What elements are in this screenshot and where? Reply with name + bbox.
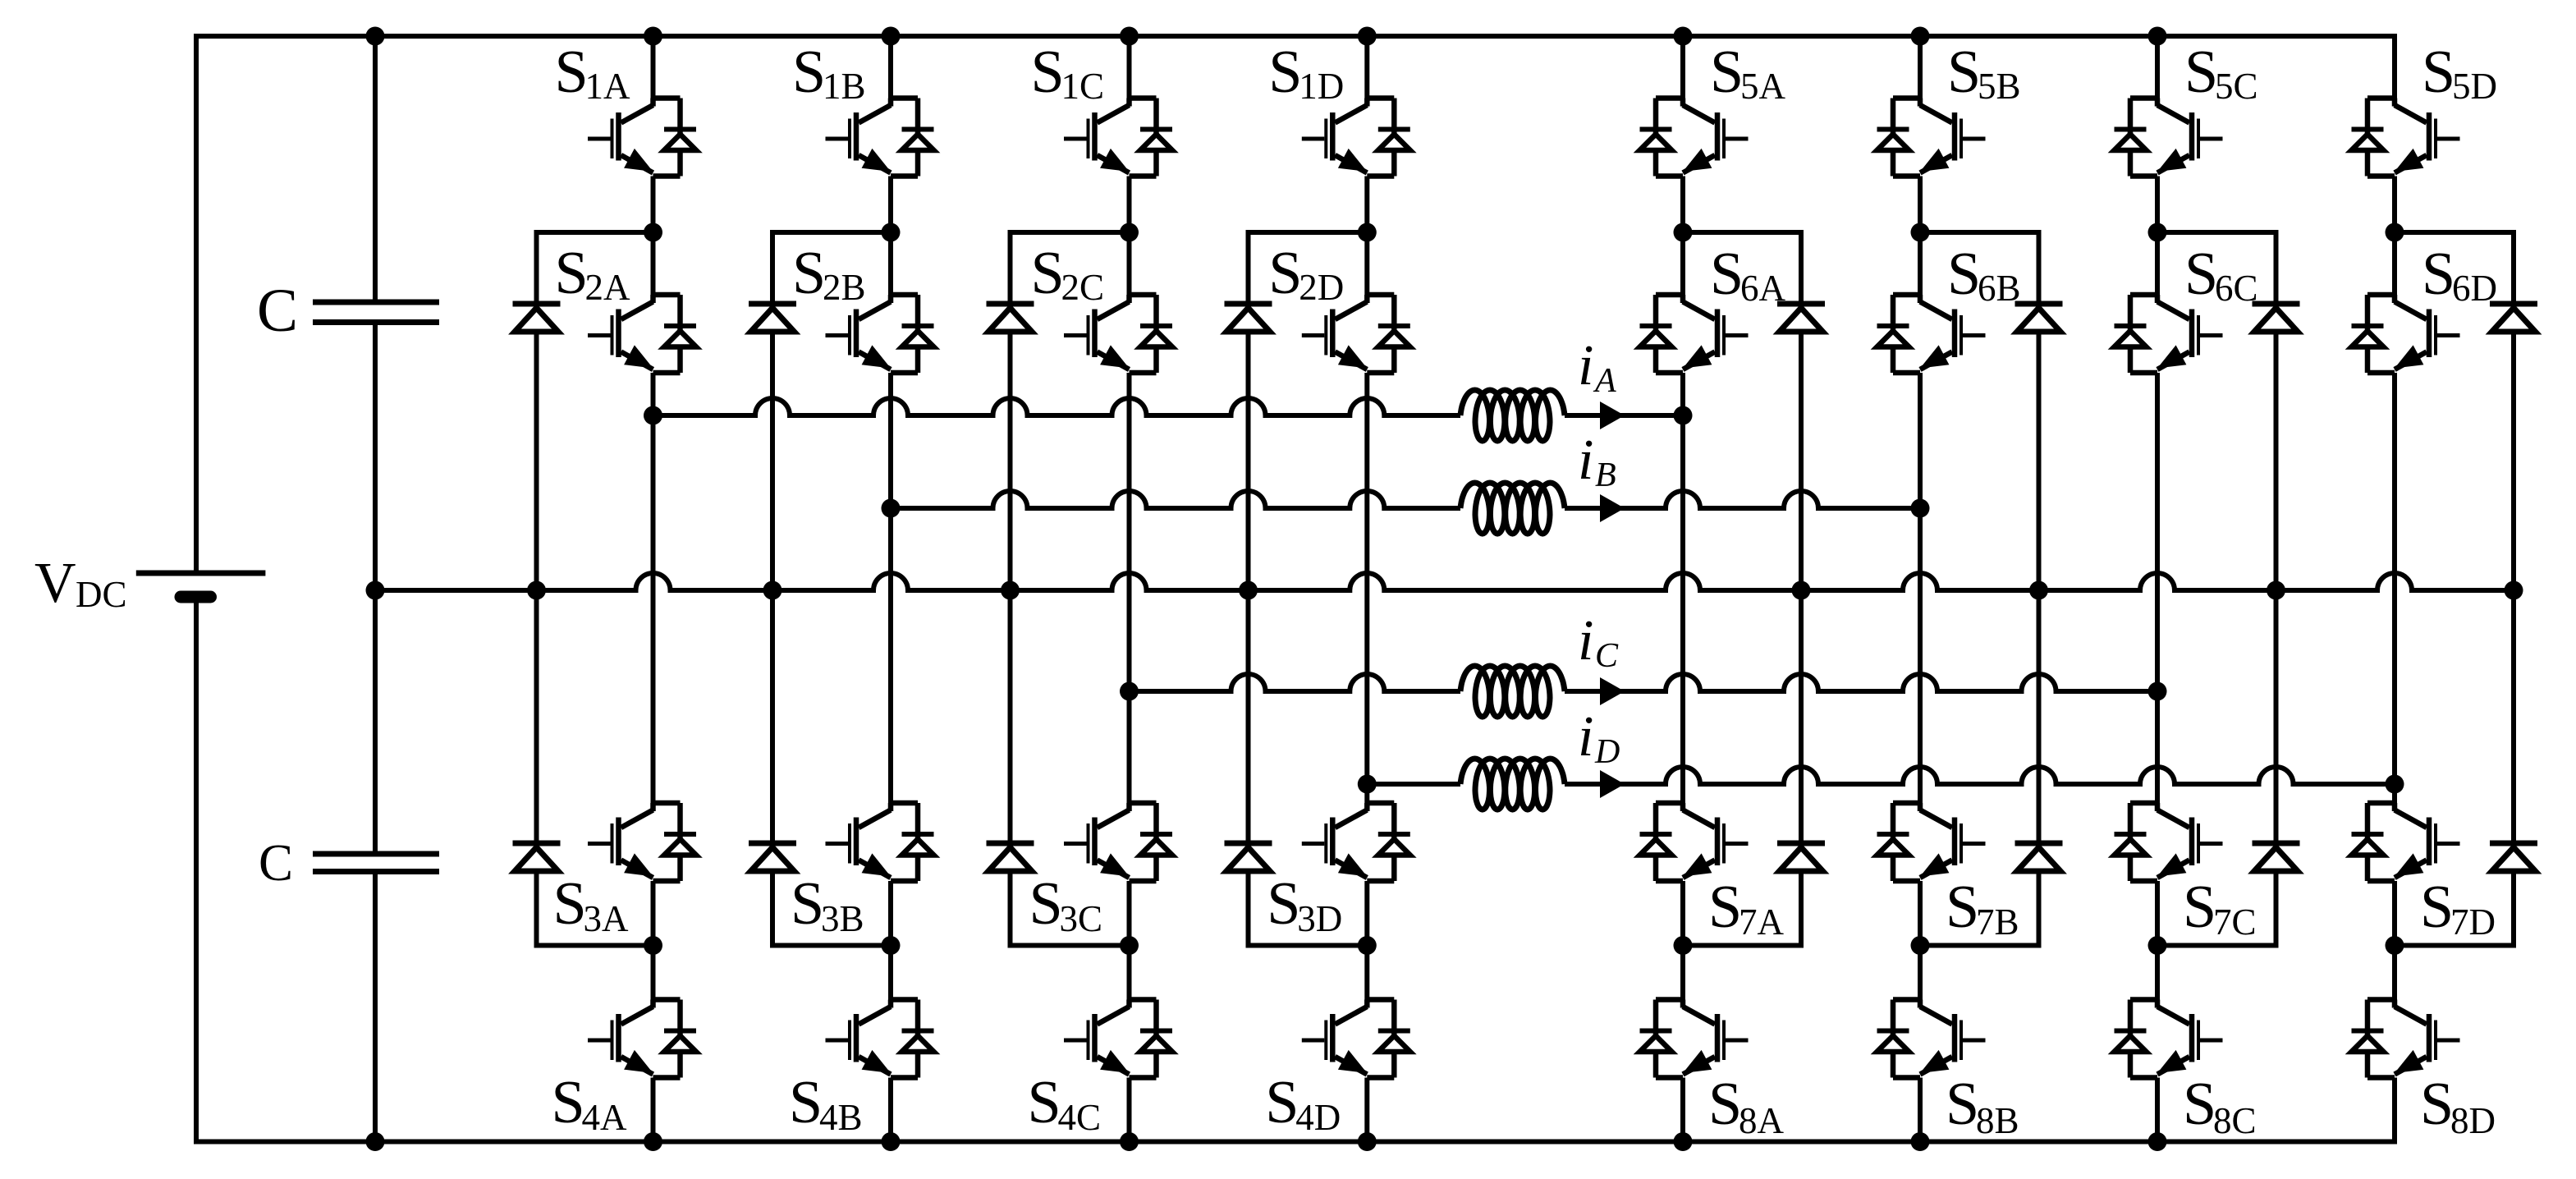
node midpoint rail / capacitor column bbox=[366, 581, 385, 600]
svg-text:B: B bbox=[1595, 456, 1616, 494]
transistor S4A (IGBT with antiparallel diode) bbox=[588, 1000, 696, 1078]
svg-text:S: S bbox=[552, 1069, 585, 1136]
transistor S8C (IGBT with antiparallel diode) bbox=[2115, 1000, 2223, 1078]
svg-text:6C: 6C bbox=[2215, 268, 2258, 309]
svg-text:i: i bbox=[1578, 334, 1593, 397]
transistor S6B (IGBT with antiparallel diode) bbox=[1877, 295, 1986, 373]
svg-text:S: S bbox=[2422, 241, 2455, 308]
transistor S3A (IGBT with antiparallel diode) bbox=[588, 803, 696, 881]
svg-text:S: S bbox=[1708, 874, 1742, 941]
wire leg AR output column bbox=[1680, 373, 1685, 803]
node bottom rail / leg A left bbox=[644, 1132, 662, 1151]
svg-text:8D: 8D bbox=[2450, 1100, 2496, 1141]
transistor S5A (IGBT with antiparallel diode) bbox=[1640, 99, 1749, 177]
wire leg BR output column bbox=[1918, 373, 1923, 803]
wire leg BR emitter stub to bottom rail bbox=[1918, 1078, 1923, 1142]
transistor S8A (IGBT with antiparallel diode) bbox=[1640, 1000, 1749, 1078]
svg-text:2C: 2C bbox=[1061, 267, 1105, 308]
diode clamp lower AL bbox=[513, 843, 561, 871]
diode clamp lower DR bbox=[2490, 843, 2537, 871]
wire leg CR between S7C and S8C bbox=[2155, 881, 2160, 1000]
transistor S2A (IGBT with antiparallel diode) bbox=[588, 295, 696, 373]
wire leg AR emitter stub to bottom rail bbox=[1680, 1078, 1685, 1142]
node phase A output / left leg bbox=[644, 406, 662, 425]
svg-text:A: A bbox=[1593, 362, 1616, 400]
wire clamp link upper node CL bbox=[1011, 230, 1130, 235]
wire leg AR between S7A and S8A bbox=[1680, 881, 1685, 1000]
wire clamp column CL bbox=[1008, 230, 1013, 948]
wire leg BL output column bbox=[888, 373, 893, 803]
diode clamp lower CL bbox=[987, 843, 1034, 871]
transistor S7D (IGBT with antiparallel diode) bbox=[2352, 803, 2460, 881]
svg-text:S: S bbox=[1031, 240, 1065, 307]
diode clamp upper DL bbox=[1225, 304, 1272, 332]
node phase A output / right leg bbox=[1674, 406, 1693, 425]
svg-text:S: S bbox=[1031, 39, 1065, 106]
transistor S1C (IGBT with antiparallel diode) bbox=[1064, 99, 1172, 177]
wire clamp column DR bbox=[2511, 230, 2516, 948]
svg-text:S: S bbox=[2183, 874, 2216, 941]
svg-text:4A: 4A bbox=[582, 1097, 628, 1138]
wire clamp column CR bbox=[2274, 230, 2279, 948]
node top rail / leg A right bbox=[1674, 27, 1693, 46]
svg-text:S: S bbox=[555, 39, 589, 106]
wire DC midpoint rail bbox=[375, 573, 2514, 590]
svg-text:S: S bbox=[1708, 1071, 1742, 1138]
svg-text:i: i bbox=[1578, 429, 1593, 492]
transistor S6A (IGBT with antiparallel diode) bbox=[1640, 295, 1749, 373]
wire leg AL between S1A and S2A bbox=[651, 177, 656, 296]
svg-text:S: S bbox=[555, 240, 589, 307]
transistor S4B (IGBT with antiparallel diode) bbox=[826, 1000, 934, 1078]
svg-text:5D: 5D bbox=[2452, 66, 2497, 107]
wire clamp link lower node BL bbox=[772, 943, 891, 948]
svg-text:7A: 7A bbox=[1739, 901, 1785, 943]
svg-text:8A: 8A bbox=[1739, 1100, 1785, 1141]
wire phase C output row (left of inductor) bbox=[1130, 674, 1461, 691]
node N3 leg D right bbox=[2386, 936, 2404, 955]
svg-text:C: C bbox=[259, 834, 293, 892]
diode clamp lower CR bbox=[2253, 843, 2300, 871]
node N1 leg D right bbox=[2386, 223, 2404, 242]
svg-text:2D: 2D bbox=[1299, 267, 1344, 308]
svg-text:7C: 7C bbox=[2213, 901, 2257, 943]
wire clamp link lower node AR bbox=[1683, 943, 1801, 948]
wire phase D output row (right of inductor) bbox=[1565, 767, 2395, 784]
svg-text:i: i bbox=[1578, 705, 1593, 768]
svg-text:S: S bbox=[1947, 39, 1981, 106]
wire clamp link upper node AL bbox=[537, 230, 653, 235]
svg-text:S: S bbox=[792, 240, 826, 307]
wire leg CL between S1C and S2C bbox=[1127, 177, 1132, 296]
svg-text:C: C bbox=[1595, 637, 1619, 675]
wire leg CL emitter stub to bottom rail bbox=[1127, 1078, 1132, 1142]
wire clamp link lower node CL bbox=[1011, 943, 1130, 948]
node N3 leg A right bbox=[1674, 936, 1693, 955]
wire clamp link upper node DL bbox=[1249, 230, 1368, 235]
diode clamp upper CR bbox=[2253, 304, 2300, 332]
svg-text:S: S bbox=[792, 39, 826, 106]
node N1 leg A right bbox=[1674, 223, 1693, 242]
wire leg DR between S5D and S6D bbox=[2392, 177, 2397, 296]
wire clamp link upper node BL bbox=[772, 230, 891, 235]
svg-text:S: S bbox=[1028, 1069, 1061, 1136]
wire phase B output row (right of inductor) bbox=[1565, 491, 1920, 508]
wire leg DR between S7D and S8D bbox=[2392, 881, 2397, 1000]
wire clamp link lower node CR bbox=[2157, 943, 2276, 948]
wire leg CL collector stub from top rail bbox=[1127, 36, 1132, 99]
wire leg DL output column bbox=[1364, 373, 1369, 803]
transistor S5D (IGBT with antiparallel diode) bbox=[2352, 99, 2460, 177]
wire clamp column AL bbox=[534, 230, 539, 948]
svg-text:S: S bbox=[2184, 241, 2218, 308]
svg-text:2B: 2B bbox=[823, 267, 866, 308]
node N1 leg B right bbox=[1911, 223, 1930, 242]
wire clamp link lower node BR bbox=[1920, 943, 2039, 948]
node N1 leg C left bbox=[1120, 223, 1139, 242]
transistor S2D (IGBT with antiparallel diode) bbox=[1302, 295, 1410, 373]
svg-text:3A: 3A bbox=[584, 898, 630, 939]
svg-text:4C: 4C bbox=[1058, 1097, 1102, 1138]
wire leg CR output column bbox=[2155, 373, 2160, 803]
inductor LB bbox=[1460, 483, 1565, 534]
node phase B output / left leg bbox=[882, 499, 901, 518]
node N3 leg C left bbox=[1120, 936, 1139, 955]
svg-text:S: S bbox=[553, 870, 587, 938]
wire left branch (VDC- lead) bbox=[194, 597, 199, 1142]
wire bottom DC- rail bbox=[194, 1140, 2397, 1145]
svg-text:1D: 1D bbox=[1299, 66, 1344, 107]
wire leg DR collector stub from top rail bbox=[2392, 36, 2397, 99]
svg-text:S: S bbox=[2420, 874, 2454, 941]
svg-text:S: S bbox=[1710, 241, 1744, 308]
svg-text:8C: 8C bbox=[2213, 1100, 2257, 1141]
svg-text:8B: 8B bbox=[1976, 1100, 2019, 1141]
svg-text:S: S bbox=[789, 1069, 823, 1136]
node phase B output / right leg bbox=[1911, 499, 1930, 518]
wire leg DL emitter stub to bottom rail bbox=[1364, 1078, 1369, 1142]
diode clamp upper BL bbox=[749, 304, 796, 332]
wire capacitor column upper bbox=[373, 36, 378, 300]
transistor S4C (IGBT with antiparallel diode) bbox=[1064, 1000, 1172, 1078]
wire phase B output row (left of inductor) bbox=[891, 491, 1460, 508]
wire clamp column DL bbox=[1246, 230, 1251, 948]
node bottom rail / leg B right bbox=[1911, 1132, 1930, 1151]
node midpoint rail / clamp C right bbox=[2267, 581, 2285, 600]
node bottom rail / leg A right bbox=[1674, 1132, 1693, 1151]
transistor S6D (IGBT with antiparallel diode) bbox=[2352, 295, 2460, 373]
wire capacitor column lower bbox=[373, 874, 378, 1142]
inductor LD bbox=[1460, 759, 1565, 810]
wire clamp link upper node CR bbox=[2157, 230, 2276, 235]
svg-text:S: S bbox=[2184, 39, 2218, 106]
svg-text:S: S bbox=[1946, 874, 1979, 941]
svg-text:4D: 4D bbox=[1295, 1097, 1341, 1138]
node bottom rail / leg C left bbox=[1120, 1132, 1139, 1151]
node top rail / leg C left bbox=[1120, 27, 1139, 46]
wire left branch (VDC+ lead) bbox=[194, 36, 199, 573]
node midpoint rail / clamp D left bbox=[1239, 581, 1258, 600]
transistor S1B (IGBT with antiparallel diode) bbox=[826, 99, 934, 177]
node top rail / capacitor column bbox=[366, 27, 385, 46]
transistor S6C (IGBT with antiparallel diode) bbox=[2115, 295, 2223, 373]
svg-text:S: S bbox=[1029, 870, 1063, 938]
wire leg BR between S5B and S6B bbox=[1918, 177, 1923, 296]
node phase C output / right leg bbox=[2148, 682, 2167, 701]
svg-text:C: C bbox=[257, 277, 298, 345]
wire leg BL emitter stub to bottom rail bbox=[888, 1078, 893, 1142]
svg-text:7B: 7B bbox=[1976, 901, 2019, 943]
svg-text:5C: 5C bbox=[2215, 66, 2258, 107]
wire leg CR emitter stub to bottom rail bbox=[2155, 1078, 2160, 1142]
node phase D output / left leg bbox=[1358, 775, 1377, 794]
wire leg DL collector stub from top rail bbox=[1364, 36, 1369, 99]
node midpoint rail / clamp A right bbox=[1792, 581, 1811, 600]
current arrow iC bbox=[1600, 677, 1625, 705]
wire leg BL between S1B and S2B bbox=[888, 177, 893, 296]
wire leg CL output column bbox=[1127, 373, 1132, 803]
transistor S8D (IGBT with antiparallel diode) bbox=[2352, 1000, 2460, 1078]
node N3 leg B right bbox=[1911, 936, 1930, 955]
wire leg CR between S5C and S6C bbox=[2155, 177, 2160, 296]
wire top DC+ rail bbox=[194, 34, 2397, 39]
wire phase A output row (left of inductor) bbox=[653, 398, 1461, 415]
node bottom rail / leg C right bbox=[2148, 1132, 2167, 1151]
svg-text:S: S bbox=[1946, 1071, 1979, 1138]
node N1 leg B left bbox=[882, 223, 901, 242]
svg-text:S: S bbox=[791, 870, 824, 938]
transistor S7B (IGBT with antiparallel diode) bbox=[1877, 803, 1986, 881]
node N3 leg C right bbox=[2148, 936, 2167, 955]
current arrow iB bbox=[1600, 494, 1625, 522]
svg-text:3B: 3B bbox=[821, 898, 864, 939]
svg-text:5B: 5B bbox=[1978, 66, 2021, 107]
node phase C output / left leg bbox=[1120, 682, 1139, 701]
wire phase A output row (right of inductor) bbox=[1565, 413, 1683, 418]
diode clamp upper BR bbox=[2015, 304, 2063, 332]
wire leg AR collector stub from top rail bbox=[1680, 36, 1685, 99]
wire clamp link lower node DR bbox=[2395, 943, 2514, 948]
node midpoint rail / clamp B right bbox=[2029, 581, 2048, 600]
svg-text:2A: 2A bbox=[585, 267, 631, 308]
svg-text:1B: 1B bbox=[823, 66, 866, 107]
wire leg AL output column bbox=[651, 373, 656, 803]
node N1 leg C right bbox=[2148, 223, 2167, 242]
node midpoint rail / clamp D right bbox=[2505, 581, 2523, 600]
svg-text:S: S bbox=[2183, 1071, 2216, 1138]
svg-text:S: S bbox=[1710, 39, 1744, 106]
diode clamp lower AR bbox=[1777, 843, 1825, 871]
wire leg AL between S3A and S4A bbox=[651, 881, 656, 1000]
node N3 leg D left bbox=[1358, 936, 1377, 955]
wire leg DL between S1D and S2D bbox=[1364, 177, 1369, 296]
svg-text:6B: 6B bbox=[1978, 268, 2021, 309]
node bottom rail / leg B left bbox=[882, 1132, 901, 1151]
transistor S2B (IGBT with antiparallel diode) bbox=[826, 295, 934, 373]
transistor S2C (IGBT with antiparallel diode) bbox=[1064, 295, 1172, 373]
wire clamp link lower node DL bbox=[1249, 943, 1368, 948]
node bottom rail / capacitor column bbox=[366, 1132, 385, 1151]
inductor LC bbox=[1460, 666, 1565, 717]
svg-text:DC: DC bbox=[76, 574, 127, 615]
capacitor C (upper) bbox=[313, 302, 439, 323]
svg-text:S: S bbox=[2422, 39, 2455, 106]
wire leg AR between S5A and S6A bbox=[1680, 177, 1685, 296]
wire leg BL collector stub from top rail bbox=[888, 36, 893, 99]
wire leg AL emitter stub to bottom rail bbox=[651, 1078, 656, 1142]
svg-text:S: S bbox=[2420, 1071, 2454, 1138]
svg-text:6A: 6A bbox=[1740, 268, 1786, 309]
svg-text:D: D bbox=[1594, 733, 1620, 771]
svg-text:1A: 1A bbox=[585, 66, 631, 107]
transistor S8B (IGBT with antiparallel diode) bbox=[1877, 1000, 1986, 1078]
wire leg BL between S3B and S4B bbox=[888, 881, 893, 1000]
diode clamp upper CL bbox=[987, 304, 1034, 332]
transistor S3D (IGBT with antiparallel diode) bbox=[1302, 803, 1410, 881]
diode clamp upper DR bbox=[2490, 304, 2537, 332]
svg-text:6D: 6D bbox=[2452, 268, 2497, 309]
wire leg AL collector stub from top rail bbox=[651, 36, 656, 99]
wire leg CR collector stub from top rail bbox=[2155, 36, 2160, 99]
wire phase D output row (left of inductor) bbox=[1367, 782, 1460, 787]
wire capacitor column middle bbox=[373, 325, 378, 851]
node top rail / leg D left bbox=[1358, 27, 1377, 46]
svg-text:3C: 3C bbox=[1060, 898, 1103, 939]
node N3 leg A left bbox=[644, 936, 662, 955]
transistor S1D (IGBT with antiparallel diode) bbox=[1302, 99, 1410, 177]
diode clamp upper AL bbox=[513, 304, 561, 332]
wire clamp link upper node DR bbox=[2395, 230, 2514, 235]
svg-text:S: S bbox=[1265, 1069, 1299, 1136]
node N3 leg B left bbox=[882, 936, 901, 955]
node bottom rail / leg D left bbox=[1358, 1132, 1377, 1151]
diode clamp upper AR bbox=[1777, 304, 1825, 332]
svg-text:5A: 5A bbox=[1740, 66, 1786, 107]
transistor S1A (IGBT with antiparallel diode) bbox=[588, 99, 696, 177]
capacitor C (lower) bbox=[313, 854, 439, 872]
current arrow iA bbox=[1600, 401, 1625, 429]
transistor S5B (IGBT with antiparallel diode) bbox=[1877, 99, 1986, 177]
transistor S3C (IGBT with antiparallel diode) bbox=[1064, 803, 1172, 881]
transistor S7A (IGBT with antiparallel diode) bbox=[1640, 803, 1749, 881]
inductor LA bbox=[1460, 390, 1565, 441]
svg-text:1C: 1C bbox=[1061, 66, 1105, 107]
wire clamp column AR bbox=[1799, 230, 1804, 948]
svg-text:i: i bbox=[1578, 609, 1593, 672]
wire clamp column BL bbox=[770, 230, 775, 948]
current arrow iD bbox=[1600, 770, 1625, 798]
wire leg DR emitter stub to bottom rail bbox=[2392, 1078, 2397, 1142]
battery VDC bbox=[136, 573, 266, 597]
node N1 leg D left bbox=[1358, 223, 1377, 242]
svg-text:7D: 7D bbox=[2450, 901, 2496, 943]
svg-text:V: V bbox=[34, 552, 76, 615]
wire clamp column BR bbox=[2037, 230, 2042, 948]
svg-text:S: S bbox=[1268, 240, 1302, 307]
svg-text:S: S bbox=[1947, 241, 1981, 308]
node top rail / leg B right bbox=[1911, 27, 1930, 46]
diode clamp lower DL bbox=[1225, 843, 1272, 871]
svg-text:4B: 4B bbox=[819, 1097, 863, 1138]
wire leg DL between S3D and S4D bbox=[1364, 881, 1369, 1000]
wire clamp link lower node AL bbox=[537, 943, 653, 948]
transistor S7C (IGBT with antiparallel diode) bbox=[2115, 803, 2223, 881]
node phase D output / right leg bbox=[2386, 775, 2404, 794]
wire clamp link upper node AR bbox=[1683, 230, 1801, 235]
transistor S4D (IGBT with antiparallel diode) bbox=[1302, 1000, 1410, 1078]
transistor S3B (IGBT with antiparallel diode) bbox=[826, 803, 934, 881]
wire phase C output row (right of inductor) bbox=[1565, 674, 2157, 691]
wire leg CL between S3C and S4C bbox=[1127, 881, 1132, 1000]
wire leg BR between S7B and S8B bbox=[1918, 881, 1923, 1000]
wire leg BR collector stub from top rail bbox=[1918, 36, 1923, 99]
diode clamp lower BL bbox=[749, 843, 796, 871]
svg-text:3D: 3D bbox=[1297, 898, 1342, 939]
node N1 leg A left bbox=[644, 223, 662, 242]
transistor S5C (IGBT with antiparallel diode) bbox=[2115, 99, 2223, 177]
wire clamp link upper node BR bbox=[1920, 230, 2039, 235]
node top rail / leg B left bbox=[882, 27, 901, 46]
wire leg DR output column bbox=[2392, 373, 2397, 803]
svg-text:S: S bbox=[1268, 39, 1302, 106]
node top rail / leg A left bbox=[644, 27, 662, 46]
node midpoint rail / clamp A left bbox=[527, 581, 546, 600]
node top rail / leg C right bbox=[2148, 27, 2167, 46]
node midpoint rail / clamp C left bbox=[1001, 581, 1020, 600]
diode clamp lower BR bbox=[2015, 843, 2063, 871]
node midpoint rail / clamp B left bbox=[763, 581, 782, 600]
svg-text:S: S bbox=[1267, 870, 1300, 938]
